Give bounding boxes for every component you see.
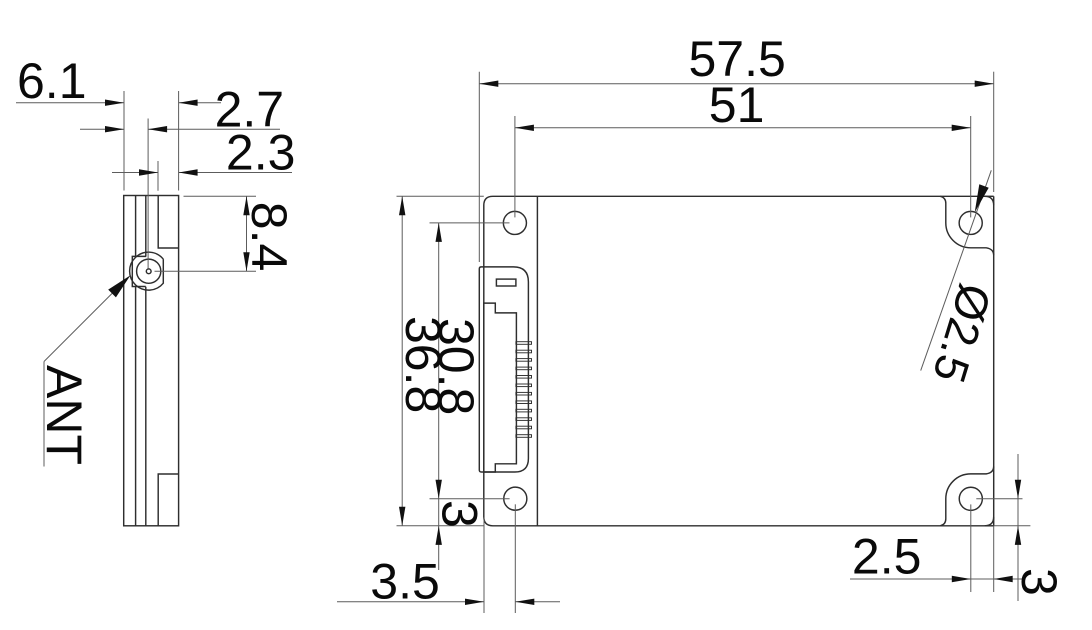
dim 30.8 extension bottom — [430, 498, 510, 500]
label 51 — [709, 77, 765, 133]
dim 3 right extension — [976, 499, 1030, 526]
label 30.8 — [428, 318, 484, 415]
svg-text:2.5: 2.5 — [852, 529, 922, 585]
side view top-right notch — [158, 196, 178, 249]
label 3 right — [1011, 568, 1067, 596]
side view pcb line lower — [145, 287, 147, 526]
dim 3 left arrow — [436, 526, 442, 545]
label 2.5 — [852, 529, 922, 585]
leader dia2.5 line — [921, 170, 992, 370]
main board outline — [484, 196, 994, 526]
label 6.1 — [17, 53, 87, 109]
connector J1 pins — [516, 342, 532, 438]
side view board outline — [124, 196, 179, 526]
ant connector center pin — [146, 269, 151, 274]
dim 57.5 line — [479, 83, 993, 85]
label 3 bottom-left — [432, 500, 488, 528]
dim 2.5 extensions — [971, 504, 994, 592]
dim 30.8 extension top — [430, 222, 510, 224]
dim 2.7 line — [80, 128, 280, 130]
dim 36.8 arrows — [399, 196, 405, 526]
connector J1 housing — [479, 267, 528, 472]
label dia 2.5 — [923, 278, 1002, 389]
dim 51 extensions — [515, 116, 971, 217]
dim 3.5 line — [337, 601, 560, 603]
svg-text:ANT: ANT — [36, 365, 92, 465]
dim 2.7 arrows — [105, 126, 167, 132]
connector J1 key slot — [496, 279, 516, 286]
main board corner stub BR — [985, 517, 994, 526]
hole bottom-left — [504, 487, 527, 510]
dim 2.5 arrows — [952, 576, 1013, 582]
dim 2.5 line — [850, 578, 1022, 580]
dim 8.4 arrows — [243, 196, 249, 271]
hole top-left — [503, 211, 526, 234]
dim 36.8 extension bottom — [397, 525, 484, 527]
svg-text:6.1: 6.1 — [17, 53, 87, 109]
dim 3.5 extensions — [484, 504, 515, 613]
dim 6.1 line — [16, 102, 221, 104]
dim 8.4 extension bottom — [155, 270, 257, 272]
extension line center — [147, 119, 149, 269]
dim 3.5 arrows — [465, 599, 534, 605]
hole top-right — [959, 211, 982, 234]
dim 6.1 arrows — [105, 100, 198, 106]
label ANT — [36, 365, 92, 465]
ant leader arrow — [108, 275, 130, 297]
dim 51 line — [515, 127, 971, 129]
label 57.5 — [689, 31, 786, 87]
label 2.3 — [226, 125, 296, 181]
dim 57.5 extensions — [479, 72, 993, 262]
dim 36.8 extension top — [397, 195, 484, 197]
dim 3 right arrows — [1015, 480, 1021, 545]
label 36.8 — [395, 316, 451, 413]
dim 30.8 arrows — [436, 223, 442, 499]
side view inner shield line upper — [135, 196, 137, 257]
main board inner line — [536, 196, 538, 526]
label 8.4 — [241, 202, 297, 272]
dim 57.5 arrows — [479, 81, 993, 87]
hole bottom-right — [959, 487, 982, 510]
svg-text:3: 3 — [432, 500, 488, 528]
dim 51 arrows — [515, 125, 971, 131]
dim 3 right line — [1017, 454, 1019, 601]
svg-text:3: 3 — [1011, 568, 1067, 596]
dim 2.3 arrows — [139, 169, 198, 175]
ant connector inner circle — [137, 259, 161, 283]
ant connector tab — [132, 256, 146, 286]
dim 8.4 extension top — [184, 195, 257, 197]
extension line notch edge — [157, 161, 159, 191]
label 2.7 — [215, 82, 285, 138]
side view inner shield line lower — [135, 287, 137, 526]
side view bottom-right notch — [158, 474, 178, 526]
svg-text:2.3: 2.3 — [226, 125, 296, 181]
svg-text:30.8: 30.8 — [428, 318, 484, 415]
svg-text:Ø2.5: Ø2.5 — [923, 278, 1002, 389]
extension line right edge — [178, 91, 180, 191]
bottom-right corner slot — [940, 466, 994, 525]
dim 8.4 line — [246, 196, 248, 271]
ant connector barrel outer circle with flat — [130, 252, 164, 290]
label 3.5 — [370, 553, 440, 609]
main board corner stub TR — [985, 196, 994, 205]
svg-text:8.4: 8.4 — [241, 202, 297, 272]
dim 2.3 line — [112, 172, 292, 174]
svg-text:3.5: 3.5 — [370, 553, 440, 609]
side view pcb line upper — [145, 196, 147, 257]
top-right corner slot — [940, 196, 994, 255]
svg-text:51: 51 — [709, 77, 765, 133]
dim 36.8 line — [401, 196, 403, 526]
dim 30.8 line and 3 tail — [438, 223, 440, 570]
ant leader line — [44, 280, 126, 467]
leader dia2.5 arrow — [975, 184, 989, 212]
connector J1 inner contour — [484, 303, 517, 472]
extension line left edge — [123, 91, 125, 191]
